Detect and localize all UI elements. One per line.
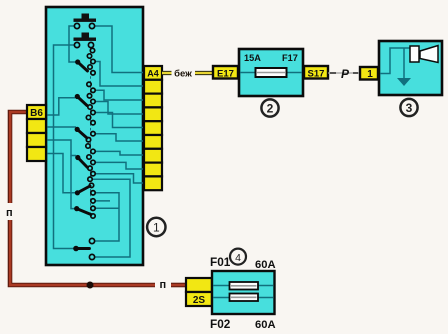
svg-text:F17: F17 xyxy=(282,53,298,63)
svg-text:S17: S17 xyxy=(308,69,325,80)
svg-text:E17: E17 xyxy=(217,69,234,80)
svg-text:F01: F01 xyxy=(210,255,231,269)
svg-text:п: п xyxy=(160,279,167,291)
svg-text:п: п xyxy=(6,207,13,219)
svg-text:3: 3 xyxy=(406,101,413,115)
svg-text:60A: 60A xyxy=(255,259,276,271)
svg-text:F02: F02 xyxy=(210,317,231,331)
svg-text:1: 1 xyxy=(153,221,160,235)
svg-text:4: 4 xyxy=(235,252,241,264)
svg-text:Р: Р xyxy=(341,67,350,81)
svg-text:60A: 60A xyxy=(255,319,276,331)
svg-text:2: 2 xyxy=(267,102,274,116)
svg-text:A4: A4 xyxy=(147,69,159,79)
svg-text:2S: 2S xyxy=(193,295,206,306)
svg-text:1: 1 xyxy=(367,69,373,80)
svg-text:15A: 15A xyxy=(244,53,261,63)
svg-text:B6: B6 xyxy=(30,108,43,119)
svg-text:беж: беж xyxy=(174,69,192,80)
